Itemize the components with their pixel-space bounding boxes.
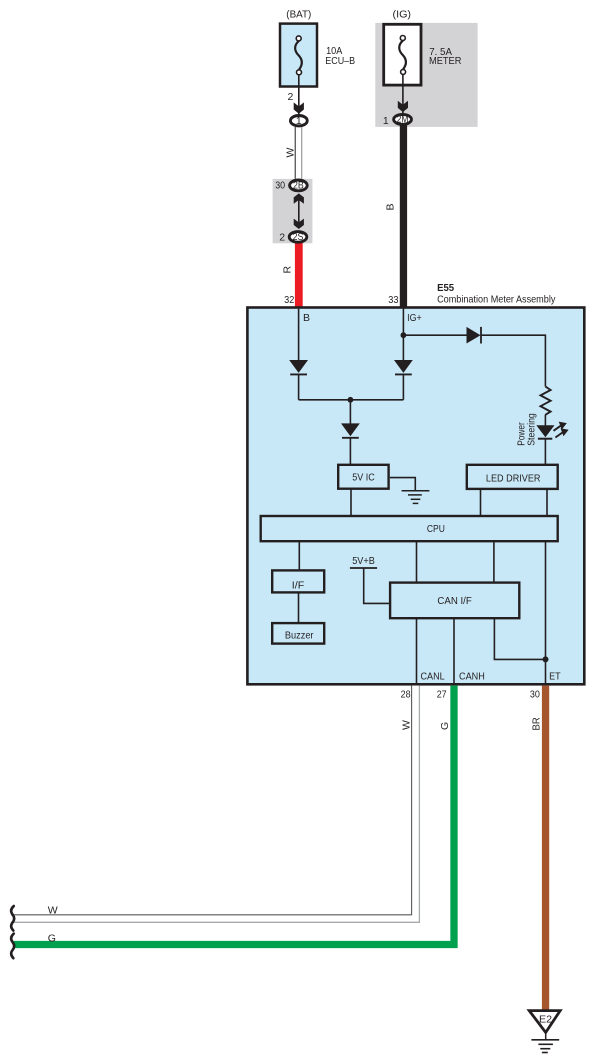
LED power steering indicator	[536, 425, 554, 437]
svg-text:W: W	[48, 904, 58, 916]
svg-text:32: 32	[284, 294, 294, 306]
svg-text:27: 27	[437, 688, 447, 700]
wire from pin 33 to diode D2	[402, 309, 404, 361]
CAN I/F box	[390, 583, 519, 619]
svg-text:METER: METER	[429, 55, 462, 67]
svg-text:BR: BR	[531, 717, 543, 731]
wires CPU to CAN I/F	[416, 541, 418, 582]
wire I/F to Buzzer	[298, 592, 300, 623]
diode D4 (to power steering LED)	[467, 327, 481, 344]
wire BR (brown) ET to ground	[542, 686, 549, 1010]
svg-text:(IG): (IG)	[393, 8, 412, 20]
wire R (red) from 2S to pin 32	[295, 243, 303, 309]
terminal oval 2S	[289, 232, 307, 243]
svg-text:IG+: IG+	[407, 312, 422, 324]
svg-text:ET: ET	[549, 671, 561, 683]
jumper arrow down	[294, 219, 304, 229]
wire joining D1 and D2	[299, 399, 404, 401]
wires LED DRIVER to CPU	[480, 489, 482, 516]
wire from pin 32 to diode D1	[298, 309, 300, 361]
svg-text:CPU: CPU	[427, 523, 445, 535]
wire resistor to LED	[544, 415, 546, 426]
svg-text:28: 28	[401, 688, 411, 700]
ground E2	[529, 1011, 560, 1033]
ground symbol (5V IC)	[402, 491, 430, 504]
svg-text:5V+B: 5V+B	[352, 555, 375, 567]
wire 5V IC to ground	[390, 478, 415, 491]
junction dot	[348, 397, 354, 403]
svg-text:I/F: I/F	[292, 579, 305, 591]
svg-text:5V IC: 5V IC	[352, 472, 375, 484]
diode D2	[394, 360, 413, 373]
svg-text:R: R	[282, 266, 294, 274]
diode D3	[341, 423, 360, 436]
svg-text:30: 30	[275, 180, 285, 192]
wire fuse F1 to terminal 1	[298, 75, 300, 115]
fuse F1 element	[295, 41, 302, 70]
svg-text:2B: 2B	[293, 180, 304, 192]
resistor R1 (power steering)	[541, 387, 551, 415]
fuse F2 element	[399, 41, 406, 70]
junction block gray background (IG)	[375, 23, 477, 127]
wire W (white) from terminal 1 to junction block	[294, 127, 296, 179]
wire 5V+B to CAN I/F	[364, 568, 390, 603]
svg-text:CANL: CANL	[421, 671, 445, 683]
wire LED to LED DRIVER	[544, 439, 546, 465]
junction block gray background	[273, 179, 313, 243]
jumper arrow up	[294, 193, 304, 203]
terminal oval 2B	[290, 180, 308, 191]
wire IG+ to diode D4	[403, 334, 466, 336]
connector arrow into terminal 2M	[398, 101, 408, 112]
wire B (black) from 2M to pin 33	[400, 125, 407, 309]
wire D3 to 5V IC	[349, 438, 351, 465]
continuation squiggle (W wire)	[11, 906, 14, 931]
svg-text:G: G	[439, 722, 451, 730]
svg-text:(BAT): (BAT)	[286, 8, 311, 20]
connector arrow into terminal 1	[294, 102, 304, 113]
svg-text:ECU–B: ECU–B	[325, 55, 355, 67]
LED emission arrows	[554, 422, 569, 438]
diode D1	[289, 360, 308, 373]
wire to diode D3	[349, 400, 351, 424]
fuse F1 box	[280, 24, 317, 87]
wire fuse F2 to terminal 2M	[402, 75, 404, 114]
svg-text:W: W	[284, 148, 296, 158]
svg-text:CAN I/F: CAN I/F	[437, 595, 471, 607]
svg-text:Steering: Steering	[525, 413, 537, 446]
svg-text:B: B	[385, 203, 397, 210]
terminal oval 2M	[394, 114, 412, 124]
wire CAN I/F to ET junction	[494, 618, 545, 659]
svg-text:2: 2	[288, 91, 294, 103]
svg-text:33: 33	[388, 294, 398, 306]
I/F box	[272, 570, 324, 592]
svg-text:Buzzer: Buzzer	[285, 630, 314, 642]
terminal oval 1	[290, 116, 307, 126]
svg-text:CANH: CANH	[459, 671, 485, 683]
wire CANH from CAN I/F to pin 27	[453, 618, 455, 683]
svg-text:30: 30	[530, 688, 540, 700]
junction dot IG+ branch	[401, 332, 407, 338]
wire CPU to I/F	[298, 541, 300, 570]
svg-text:1: 1	[296, 115, 302, 127]
5V IC box	[338, 465, 388, 489]
E55 Combination Meter Assembly box	[247, 308, 584, 685]
svg-text:G: G	[48, 932, 56, 944]
continuation squiggle (G wire)	[11, 934, 14, 959]
wire CPU to ET pin 30	[545, 541, 547, 683]
jumper wire	[298, 200, 300, 222]
CPU box	[261, 516, 558, 541]
svg-text:W: W	[401, 720, 413, 730]
wire W (white) CANL run	[11, 686, 416, 919]
wire D4 to corner then down to resistor	[481, 335, 545, 386]
LED DRIVER box	[467, 465, 558, 489]
junction dot ET	[543, 656, 549, 662]
wire CANL from CAN I/F to pin 28	[416, 618, 418, 683]
wire G (green) CANH run	[13, 686, 454, 945]
svg-text:LED DRIVER: LED DRIVER	[486, 472, 541, 484]
svg-text:E2: E2	[539, 1014, 552, 1026]
svg-text:E55: E55	[437, 282, 454, 294]
svg-text:1: 1	[383, 115, 389, 127]
svg-text:2M: 2M	[397, 114, 409, 126]
wire 5V IC to CPU	[350, 489, 352, 516]
svg-text:2S: 2S	[293, 231, 304, 243]
fuse F2 box	[384, 24, 421, 85]
svg-text:B: B	[303, 312, 310, 324]
svg-text:2: 2	[279, 232, 285, 244]
svg-text:Combination Meter Assembly: Combination Meter Assembly	[437, 294, 556, 306]
Buzzer box	[272, 623, 324, 644]
